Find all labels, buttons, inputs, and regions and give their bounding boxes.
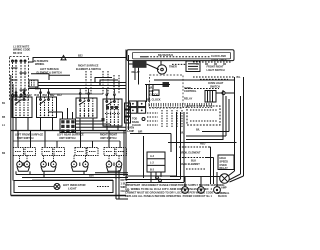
svg-text:REPLACE ALL PANELS BEFORE OPER: REPLACE ALL PANELS BEFORE OPERATING POWE… [125, 194, 212, 198]
label: B/L CLOCK [147, 98, 161, 101]
svg-text:L-2: L-2 [150, 162, 154, 165]
surface unit switch SW-RF [103, 94, 122, 131]
svg-text:CONTROL: CONTROL [184, 90, 197, 93]
wire (right horizontal links) [168, 132, 237, 143]
surface element R-LF [17, 156, 30, 172]
oven sensor enclosure (dashed) [187, 106, 220, 125]
label: BROIL ELEMENT [180, 152, 201, 155]
relay K1 [133, 61, 147, 68]
svg-text:B/R: B/R [138, 130, 143, 133]
wire label B/L [237, 76, 242, 79]
svg-text:B/L: B/L [180, 132, 185, 135]
label: RIGHT FRONT SURFACE UNIT SWITCH [100, 134, 118, 140]
clock assembly enclosure [127, 50, 234, 61]
wire (lower center links) [126, 176, 184, 183]
wire (from TS2 down) [151, 172, 161, 183]
alternate wiring switch bank (dashed enclosure) [10, 57, 29, 101]
svg-text:ALL WIRING TO BE No 18 GA 105°: ALL WIRING TO BE No 18 GA 105°C AWM COPP… [125, 187, 213, 191]
surface element R-RR [71, 156, 88, 172]
label: top-left note block [13, 46, 31, 55]
label: B/L RELAY [132, 71, 141, 74]
label: LEFT FRONT SURFACE UNIT SWITCH [15, 134, 44, 140]
svg-text:RELAY: RELAY [220, 167, 229, 170]
svg-text:BLK: BLK [191, 159, 196, 162]
terminal L1 [182, 187, 189, 194]
label: RIGHT SURFACE ELEMENT & SWITCH [76, 65, 101, 71]
bake element contacts (dashed) [179, 157, 208, 159]
label: OVEN LIGHT SWITCH [208, 82, 224, 88]
svg-text:B/L: B/L [196, 128, 201, 131]
note bracket (right of hot indicator) [116, 166, 128, 199]
svg-text:BROIL ELEMENT: BROIL ELEMENT [180, 152, 201, 155]
wire (top bus from switch bank to clock) [29, 58, 128, 63]
wire label B22 [35, 55, 83, 91]
oven light switch contacts (dashed row) [193, 77, 235, 79]
wire (to lamp) [228, 168, 244, 182]
wire label B/L (mid) [196, 128, 201, 131]
receptacle block R-LF [13, 148, 36, 156]
svg-text:B22: B22 [78, 55, 83, 58]
wire (bottom border) [11, 195, 126, 197]
svg-text:ELEMENT & SWITCH: ELEMENT & SWITCH [76, 68, 101, 71]
svg-text:RELAY: RELAY [184, 98, 193, 101]
terminal L2 [214, 187, 221, 194]
terminal N [198, 187, 205, 194]
timer motor M1 [157, 61, 186, 75]
svg-text:IMPORTANT DISCONNECT RANGE FR: IMPORTANT DISCONNECT RANGE FROM POWER SU… [125, 183, 225, 187]
wire (step links) [95, 78, 118, 86]
label: OVEN CONTROL [184, 87, 197, 101]
terminal strip TS2 [147, 152, 165, 172]
terminal comb baseline [149, 107, 213, 109]
note numbers [219, 184, 221, 187]
svg-text:CABINET MUST BE GROUNDED TO DR: CABINET MUST BE GROUNDED TO DRY LOCATION… [125, 190, 214, 194]
surface unit switch SW-LF [12, 92, 32, 131]
svg-text:UNIT SWITCH: UNIT SWITCH [17, 137, 34, 140]
svg-text:BK W R: BK W R [13, 52, 22, 55]
label: B/L B26 CLOCK [149, 87, 158, 97]
label: LEFT REAR SURFACE UNIT SWITCH [57, 134, 84, 140]
contact block K1b [125, 103, 131, 123]
wire (center links down) [130, 112, 184, 182]
wire (bus y88) [28, 88, 126, 90]
receptacle block R-RR [75, 148, 98, 156]
pilot lamp DS1 (hot indicator light) [18, 184, 60, 190]
notes text block [125, 183, 225, 198]
wire (element return runs) [16, 171, 128, 180]
clock module enclosure (dashed) [150, 75, 184, 108]
thermostat bulb component [163, 82, 170, 87]
svg-text:BLOCK: BLOCK [218, 195, 227, 198]
svg-text:B/L CLOCK: B/L CLOCK [147, 98, 161, 101]
label: CLOCK AND TIMER [211, 55, 227, 61]
front right light switch contacts (dashed row) [193, 62, 232, 64]
label: LEFT SURFACE ELEMENT & SWITCH [37, 68, 62, 74]
wire (bus y88) [38, 85, 126, 87]
svg-text:SWITCH: SWITCH [210, 85, 220, 88]
label: left margin wire ids [2, 102, 6, 155]
label: TIMER [169, 66, 177, 69]
wire label B26 [89, 175, 94, 178]
wire (bus y97) [48, 93, 103, 95]
label: NOTE column [121, 179, 130, 193]
svg-text:RED: RED [200, 142, 205, 145]
wire (main horizontal bus) [11, 131, 126, 133]
terminal comb row [149, 103, 211, 107]
wire (drops from bus to element blocks) [13, 131, 120, 148]
hot indicator enclosure [14, 181, 113, 193]
svg-text:RELAY: RELAY [132, 71, 141, 74]
wire (terminal feeds) [170, 172, 220, 187]
label: HIGH SPEED text [220, 157, 229, 170]
receptacle block R-RF [104, 148, 127, 156]
oven control contacts (dashed row) [185, 88, 219, 90]
wire (bus y84) [38, 82, 126, 84]
node (selector contact) [142, 113, 158, 125]
hot box inner dashes [97, 186, 109, 188]
node symbol (ground triangle) [61, 56, 66, 60]
label: TERMINAL BLOCK [217, 192, 230, 198]
surface unit switch SW-RR [76, 93, 97, 131]
wire (dashed drops right surface) [86, 71, 119, 94]
label: BAKE ELEMENT [180, 163, 200, 166]
svg-text:A-2: A-2 [150, 155, 155, 158]
wire (long run y80) [154, 79, 235, 81]
wire label B/L (broil feed) [180, 132, 205, 146]
svg-text:B26: B26 [89, 175, 94, 178]
surface unit switch SW-LR [37, 92, 57, 131]
svg-text:B-2: B-2 [150, 168, 155, 171]
wire (left main bus vertical) [11, 75, 13, 196]
svg-text:LAMP: LAMP [127, 130, 134, 133]
clock terminal strip (dashed row) [140, 56, 210, 58]
broil element contacts (dashed) [179, 146, 211, 148]
label: ALTERNATE WIRING [34, 60, 49, 66]
label: terminal ids [150, 155, 155, 171]
svg-text:WIRING: WIRING [35, 63, 44, 66]
label: LAMP [220, 186, 227, 189]
contact block K1a [129, 101, 146, 113]
svg-text:UNIT SWITCH: UNIT SWITCH [100, 137, 117, 140]
wire (feeds into TB1) [48, 108, 126, 127]
oven lamp M2 [220, 174, 230, 184]
node junction pair [156, 176, 162, 182]
wire (bracket under left surface label) [31, 74, 70, 80]
surface element R-RF [106, 156, 122, 172]
label: FRONT RIGHT LIGHT SWITCH [207, 66, 225, 72]
wire id row [13, 94, 62, 97]
wire (dashed verticals below clock) [162, 110, 182, 128]
terminal block TB1 (center plug) [61, 120, 74, 132]
svg-text:LIGHT SWITCH: LIGHT SWITCH [207, 69, 225, 72]
wire label B/R [138, 130, 143, 133]
lamp housing box [186, 61, 200, 72]
svg-text:BAKE ELEMENT: BAKE ELEMENT [180, 163, 200, 166]
switch SW-RF clean contacts [102, 106, 119, 121]
label: clock function list [132, 117, 141, 127]
svg-text:LIGHT: LIGHT [68, 187, 77, 191]
switch S1 contacts (alternate wiring) [11, 60, 18, 98]
wire (bus feeds to switches) [16, 89, 114, 94]
svg-text:UNIT SWITCH: UNIT SWITCH [59, 137, 76, 140]
high speed relay box [218, 155, 234, 170]
svg-text:B/L: B/L [237, 76, 242, 79]
terminal block TB1 outline [60, 119, 76, 133]
label: OVEN LAMP [127, 127, 134, 133]
receptacle block R-LR [42, 148, 65, 156]
svg-text:TIMER: TIMER [169, 66, 177, 69]
junction box (surface element receptacle) [29, 80, 38, 87]
label: BLK [191, 159, 196, 162]
clock input bracket [145, 85, 170, 103]
surface element R-LR [41, 156, 57, 172]
relay K2 (door latch) [205, 91, 235, 103]
wire (relay links) [124, 50, 159, 181]
wire (bake/broil runs) [186, 147, 214, 184]
label: HOT INDICATOR LIGHT [63, 183, 86, 191]
wire (right bus group) [223, 77, 244, 174]
svg-text:OVEN TIMER: OVEN TIMER [211, 58, 227, 61]
label: wire ids on clock strip [158, 54, 174, 57]
switch S2 contacts (alternate wiring) [20, 60, 28, 98]
svg-text:B22 B23 B21: B22 B23 B21 [158, 54, 174, 57]
